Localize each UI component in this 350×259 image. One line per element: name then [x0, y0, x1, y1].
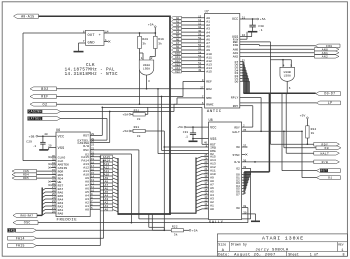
svg-text:Sheet: Sheet: [288, 253, 299, 258]
svg-text:+5A: +5A: [177, 126, 183, 129]
svg-text:RPLY: RPLY: [231, 97, 239, 100]
svg-text:56: 56: [198, 44, 202, 47]
svg-text:A2: A2: [176, 24, 180, 27]
flag OSC: [13, 221, 38, 225]
svg-text:R22: R22: [172, 225, 178, 228]
svg-text:+5A: +5A: [148, 23, 154, 26]
svg-text:+5A: +5A: [260, 18, 266, 21]
svg-text:3k: 3k: [137, 117, 141, 121]
ground (C30): [248, 31, 258, 33]
FREDDIE address outputs to fan bus with net labels: [90, 156, 112, 158]
svg-text:13: 13: [198, 16, 202, 19]
svg-text:C30: C30: [258, 25, 264, 28]
svg-text:A5: A5: [176, 35, 180, 38]
no-connect marks on FREDDIE left pins: [51, 156, 57, 158]
svg-text:O0: O0: [324, 146, 329, 150]
svg-text:R20: R20: [142, 38, 148, 41]
svg-text:10: 10: [198, 26, 202, 29]
svg-text:.1: .1: [184, 135, 188, 138]
wire: main address bus vertical: [169, 16, 171, 215]
svg-text:D7: D7: [236, 193, 240, 196]
wire: CASINH to FREDDIE: [61, 111, 110, 113]
and-gate U10A LS08: [139, 60, 154, 75]
wire: RDY net to flag: [271, 143, 314, 145]
svg-text:50: 50: [198, 66, 202, 69]
svg-text:A1: A1: [176, 20, 180, 23]
svg-text:CLK: CLK: [86, 64, 95, 68]
svg-text:14.31818MHz - NTSC: 14.31818MHz - NTSC: [65, 73, 118, 77]
svg-text:NMI: NMI: [206, 96, 212, 100]
flag O2: [30, 102, 57, 106]
svg-text:RDY: RDY: [233, 105, 239, 108]
wire: FREDDIE O2 out down: [90, 149, 139, 151]
svg-text:FREDDIE: FREDDIE: [57, 219, 78, 223]
svg-text:HALT: HALT: [321, 151, 330, 155]
svg-text:OUT: OUT: [88, 34, 96, 38]
title block: [217, 234, 347, 256]
svg-text:D0-D7: D0-D7: [324, 92, 335, 96]
svg-text:AN2: AN2: [322, 56, 328, 59]
svg-text:REF: REF: [206, 80, 212, 84]
ANTIC address pin tags A0-A15 on bus: [172, 16, 182, 19]
svg-text:VSS: VSS: [58, 147, 65, 151]
svg-text:GND: GND: [88, 41, 95, 45]
wire: RA bus: [37, 214, 42, 216]
wire: osc out to FREDDIE CLK: [23, 32, 86, 34]
wire: FREDDIE RST to pullup line: [90, 134, 102, 136]
svg-text:A7: A7: [176, 42, 180, 45]
power +5A (R22): [189, 229, 191, 231]
svg-text:.1: .1: [259, 29, 263, 32]
wire: SALLY data bus thick to vertical: [244, 171, 269, 173]
wire: A0-A15 bus horizontal: [39, 15, 171, 17]
svg-text:A11: A11: [175, 56, 180, 59]
wire: REF line to U10B inputs: [271, 59, 292, 61]
wire: IRQ to SALLY: [163, 146, 165, 148]
svg-text:BO2: BO2: [41, 88, 49, 92]
wire: BO2 to ANTIC: [57, 88, 205, 90]
wire: address bus branch to SALLY fan: [169, 212, 196, 214]
svg-text:38: 38: [243, 205, 247, 208]
svg-text:55: 55: [198, 48, 202, 51]
svg-text:CASINH: CASINH: [28, 110, 41, 114]
wire: RST net horizontal: [101, 107, 103, 109]
flag HALT: [286, 92, 288, 94]
svg-text:SYNC: SYNC: [232, 154, 240, 157]
svg-text:8: 8: [342, 254, 344, 258]
svg-text:O1: O1: [328, 176, 333, 180]
svg-text:EXTSEL: EXTSEL: [28, 117, 41, 121]
svg-text:58: 58: [198, 37, 202, 40]
svg-text:LP: LP: [328, 101, 333, 105]
svg-text:LS08: LS08: [284, 74, 291, 77]
flag REF: [30, 95, 57, 99]
SALLY bottom VSS to ground: [242, 213, 256, 215]
svg-text:40: 40: [44, 133, 48, 136]
svg-text:A3: A3: [176, 28, 180, 31]
ground (C29): [39, 149, 48, 151]
svg-text:A4: A4: [176, 31, 180, 34]
svg-text:R31: R31: [134, 109, 140, 112]
svg-text:A9: A9: [176, 49, 180, 52]
wire: O2 to ANTIC NMI: [57, 103, 178, 105]
svg-text:ATARI 130XE: ATARI 130XE: [262, 236, 304, 242]
svg-text:39: 39: [243, 166, 247, 169]
svg-text:A12: A12: [175, 60, 180, 63]
svg-text:1: 1: [341, 249, 343, 253]
svg-text:BO2: BO2: [206, 87, 212, 91]
ground (oscillator): [74, 51, 84, 53]
svg-text:RA0-RA7: RA0-RA7: [21, 215, 34, 218]
svg-text:.1: .1: [33, 145, 37, 148]
wire: FREDDIE OSC out down to OSC flag: [90, 153, 131, 155]
svg-text:FA14: FA14: [16, 236, 25, 240]
wire: REF to ANTIC: [57, 96, 184, 98]
svg-text:VCC: VCC: [232, 17, 238, 21]
svg-text:ANTIC: ANTIC: [207, 110, 222, 114]
power +5A (ANTIC VCC): [257, 18, 259, 20]
svg-text:A0: A0: [176, 17, 180, 20]
svg-text:A13: A13: [175, 63, 180, 66]
flag O1: [301, 131, 303, 177]
svg-text:R/W: R/W: [322, 160, 328, 164]
wire: LP line: [240, 102, 316, 104]
resistor R24 3k (RDY pullup): [306, 126, 309, 138]
flag CAS: [12, 169, 37, 172]
svg-text:R21: R21: [134, 126, 140, 129]
svg-text:VSS: VSS: [210, 138, 216, 142]
svg-text:A0: A0: [105, 208, 109, 211]
svg-text:RD5: RD5: [23, 177, 29, 180]
svg-text:A0: A0: [85, 208, 89, 212]
svg-text:U8: U8: [209, 119, 213, 123]
svg-text:Size: Size: [218, 242, 226, 246]
svg-text:53: 53: [198, 55, 202, 58]
flag BO2: [30, 87, 57, 91]
svg-text:3k: 3k: [311, 131, 315, 135]
svg-text:A6: A6: [176, 38, 180, 41]
svg-text:Drawn by: Drawn by: [231, 242, 247, 246]
svg-text:23: 23: [91, 143, 95, 146]
svg-text:C31: C31: [183, 131, 189, 134]
flag FO0: [315, 44, 340, 48]
svg-text:11: 11: [198, 23, 202, 26]
svg-text:1 of: 1 of: [310, 253, 319, 258]
svg-text:O0: O0: [236, 207, 240, 210]
resistor R19 3k: [154, 33, 156, 36]
flag RST: [281, 93, 283, 170]
oscillator Y1 14MHz: [86, 30, 105, 45]
svg-text:14.18757MHz - PAL: 14.18757MHz - PAL: [65, 69, 115, 73]
svg-text:30: 30: [243, 211, 247, 214]
ground (C31): [189, 140, 198, 142]
wire: R19 bottom to U10A pin 2: [154, 49, 156, 57]
svg-text:SALLY: SALLY: [209, 221, 224, 225]
svg-text:51: 51: [198, 62, 202, 65]
wire: FREDDIE address fan bus vertical: [117, 158, 119, 215]
svg-text:A15: A15: [206, 70, 212, 74]
flag IRQ: [8, 228, 37, 232]
power +5A (osc area): [154, 26, 156, 28]
svg-text:A15: A15: [175, 71, 180, 74]
resistor R20 3k: [139, 32, 141, 34]
svg-text:30: 30: [198, 30, 202, 33]
svg-text:R19: R19: [158, 38, 164, 41]
svg-text:RST: RST: [83, 134, 89, 138]
svg-text:VCC: VCC: [210, 126, 216, 130]
svg-text:VCC: VCC: [58, 136, 65, 140]
power +5A (R31): [129, 113, 131, 115]
svg-text:RA0: RA0: [58, 211, 64, 215]
flag RD5: [12, 176, 37, 179]
svg-text:+5A: +5A: [122, 114, 128, 117]
svg-text:20: 20: [48, 144, 52, 147]
svg-text:57: 57: [198, 41, 202, 44]
svg-text:3k: 3k: [158, 41, 162, 45]
wire: address bus bottom run to FREDDIE fan: [118, 213, 171, 215]
flag O0 (phi0): [283, 131, 285, 148]
wire: REF branch down to SALLY DMG: [161, 96, 163, 98]
svg-text:REF: REF: [41, 96, 49, 100]
IC U6 FREDDIE: [56, 132, 90, 217]
svg-text:RNMI: RNMI: [206, 103, 214, 107]
svg-text:A14: A14: [175, 67, 180, 70]
svg-text:27: 27: [200, 86, 204, 89]
svg-text:A0-A15: A0-A15: [21, 14, 34, 18]
svg-text:+5B: +5B: [29, 134, 35, 138]
svg-text:C29: C29: [26, 140, 32, 143]
svg-text:54: 54: [198, 51, 202, 54]
flag FA15: [8, 244, 37, 248]
wire: EXTSEL to FREDDIE: [61, 118, 108, 120]
svg-text:O0: O0: [236, 146, 240, 149]
svg-text:AN1: AN1: [233, 52, 239, 55]
svg-text:U7: U7: [205, 11, 209, 15]
wire: FA14 to bottom flag: [103, 159, 105, 161]
capacitor C30 .1: [252, 19, 254, 25]
power +5A (R21): [129, 130, 131, 132]
wire: BO2 branch down to SALLY O2: [157, 88, 159, 90]
svg-text:RDY: RDY: [234, 127, 240, 130]
flag RD4: [12, 173, 37, 176]
svg-text:A8: A8: [176, 45, 180, 48]
svg-text:IRQ: IRQ: [8, 228, 15, 232]
RA bus taps to FREDDIE RA pins: [42, 189, 56, 191]
svg-text:3k: 3k: [137, 134, 141, 138]
flag R/W: [314, 160, 340, 164]
svg-text:AN1: AN1: [322, 52, 328, 55]
svg-text:D0: D0: [235, 81, 239, 84]
svg-text:August 26, 2007: August 26, 2007: [234, 254, 276, 258]
flag EXTSEL: [28, 117, 61, 121]
wire: FA15 to bottom flag: [99, 156, 101, 158]
svg-text:A0: A0: [210, 207, 214, 211]
svg-text:49: 49: [198, 69, 202, 72]
ground (SALLY VSS): [251, 220, 260, 222]
wire: CASINH branch to ANTIC RNMI: [110, 111, 174, 113]
wire: SALLY address fan bus vertical: [195, 158, 197, 214]
svg-text:+5V: +5V: [300, 114, 306, 117]
svg-text:FO0: FO0: [233, 44, 239, 47]
wire: data bus D0-D7 thick: [244, 92, 316, 94]
svg-text:REV: REV: [338, 243, 344, 246]
svg-text:HALT: HALT: [232, 131, 240, 134]
wire: drop from address bus to IRQ line (right): [151, 215, 153, 231]
svg-text:3k: 3k: [174, 233, 178, 237]
flag FA14: [8, 236, 37, 240]
svg-text:O2: O2: [236, 168, 240, 171]
svg-text:FA15: FA15: [16, 244, 25, 248]
svg-text:AN2: AN2: [233, 56, 239, 59]
svg-text:59: 59: [198, 33, 202, 36]
svg-text:12: 12: [198, 19, 202, 22]
IC U8 SALLY: [209, 122, 242, 220]
svg-text:LS08: LS08: [143, 67, 150, 70]
svg-text:+5A: +5A: [122, 130, 128, 133]
svg-text:RST: RST: [321, 169, 328, 173]
svg-text:Jerzy SOBOLA: Jerzy SOBOLA: [255, 248, 289, 253]
flag RDY: [314, 142, 340, 146]
wire: IRQ net vertical: [145, 130, 164, 132]
flag CASINH: [28, 110, 61, 114]
svg-text:A10: A10: [175, 53, 180, 56]
wire: OSC line to SALLY O0: [38, 222, 248, 224]
IC U7 ANTIC: [205, 14, 240, 109]
svg-text:R24: R24: [311, 128, 317, 131]
bus flag D0-D7: [316, 92, 341, 96]
svg-text:+5A: +5A: [192, 230, 198, 233]
svg-text:U6: U6: [56, 129, 60, 133]
svg-text:52: 52: [198, 58, 202, 61]
wire: IRQ line: [37, 229, 172, 231]
wire: drop from address bus to IRQ line (left): [148, 215, 150, 228]
bus flag RA0-RA7: [13, 213, 37, 217]
svg-text:OSC: OSC: [24, 221, 31, 225]
pin 20 VSS: [49, 146, 56, 148]
power +5V (R24): [307, 117, 309, 119]
wire: tap to U10A pin 1: [140, 52, 144, 54]
flag LP: [316, 101, 340, 105]
svg-text:O2: O2: [42, 103, 47, 107]
and-gate U10B LS08: [280, 67, 295, 81]
wire: R20 bottom to O2 line: [139, 49, 141, 105]
svg-text:R/W: R/W: [234, 160, 240, 164]
svg-text:Date:: Date:: [218, 254, 230, 258]
svg-text:3k: 3k: [142, 41, 146, 45]
bus flag A0-A15: [14, 14, 39, 18]
svg-text:+: +: [99, 34, 101, 38]
